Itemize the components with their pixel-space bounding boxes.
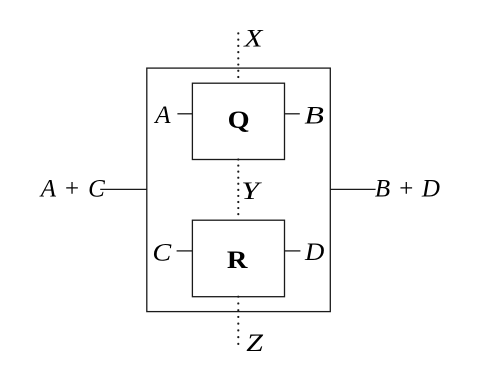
svg-text:A + C: A + C	[39, 176, 105, 203]
svg-text:B: B	[304, 102, 324, 130]
svg-text:C: C	[152, 238, 172, 266]
box Q	[192, 83, 284, 159]
svg-text:R: R	[227, 246, 248, 274]
svg-text:D: D	[304, 238, 325, 266]
wire R to D	[285, 250, 301, 252]
wire A to Q	[177, 113, 192, 115]
wire Q to B	[285, 113, 300, 115]
svg-text:Q: Q	[228, 105, 250, 133]
wire A+C to outer box	[100, 188, 147, 190]
svg-text:B + D: B + D	[375, 176, 440, 203]
svg-text:A: A	[153, 102, 171, 129]
svg-text:X: X	[243, 25, 264, 52]
svg-text:Z: Z	[246, 328, 263, 356]
dotted axis segment Z (below R through outer box bottom)	[237, 297, 239, 344]
wire outer box to B+D	[330, 188, 375, 190]
outer box (A+C to B+D)	[147, 68, 330, 312]
dotted axis segment X (above outer box down to top of Q)	[237, 33, 239, 83]
dotted axis segment Y (between Q and R)	[237, 160, 239, 221]
wire C to R	[177, 250, 193, 252]
box R	[192, 220, 284, 297]
